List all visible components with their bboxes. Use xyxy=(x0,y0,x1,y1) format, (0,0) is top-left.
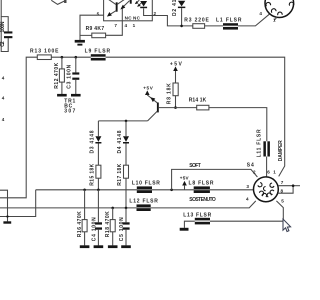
LED light arrow xyxy=(135,0,142,7)
diode D3 xyxy=(95,136,101,142)
wire: collector rail to diodes xyxy=(98,120,147,122)
phototransistor 2 bar xyxy=(130,0,132,4)
resistor R9 xyxy=(92,33,106,38)
wire: C3 top xyxy=(75,57,77,72)
wire: R12 top xyxy=(61,57,63,69)
svg-text:R3 220E: R3 220E xyxy=(184,18,209,24)
capacitor C3 xyxy=(72,72,79,79)
transistor TR1 bar xyxy=(157,103,159,113)
svg-text:7: 7 xyxy=(281,180,284,185)
wire: +5V to soft line xyxy=(184,185,186,190)
wire: R18 top xyxy=(112,208,114,220)
transistor TR1 base wire xyxy=(159,107,176,109)
svg-text:2: 2 xyxy=(253,170,256,175)
resistor R15 xyxy=(96,165,101,178)
svg-text:6: 6 xyxy=(267,170,270,175)
pin 1 stub xyxy=(274,17,277,20)
svg-text:R8 18K: R8 18K xyxy=(166,83,172,104)
svg-text:R14 1K: R14 1K xyxy=(189,97,207,103)
svg-text:1: 1 xyxy=(133,23,136,28)
inductor L1 FLSR xyxy=(223,23,238,29)
svg-text:R16 470K: R16 470K xyxy=(77,211,83,237)
wire: R12 bottom xyxy=(61,82,63,94)
wire: long net L9 to DIN pin 7 xyxy=(106,57,285,176)
phototransistor emitter wire with arrow xyxy=(109,11,116,16)
phototransistor 2 emitter wire with arrow xyxy=(123,1,130,8)
resistor R13 xyxy=(37,55,51,60)
junction node xyxy=(292,184,295,187)
resistor R17 xyxy=(124,165,129,178)
wire: L13 left to ground xyxy=(184,221,194,228)
svg-text:4: 4 xyxy=(125,23,128,28)
ground xyxy=(3,221,11,223)
svg-text:+5V: +5V xyxy=(143,85,154,90)
svg-text:3: 3 xyxy=(246,184,249,189)
pin cup xyxy=(258,183,262,187)
svg-text:R9 4K7: R9 4K7 xyxy=(86,26,105,32)
svg-text:C4 100N: C4 100N xyxy=(91,217,97,241)
wire: R9 to optocoupler pin xyxy=(106,8,123,36)
diode D4 xyxy=(123,136,129,142)
wire: ground stub xyxy=(79,35,81,40)
pin cup xyxy=(270,183,274,187)
wire: D3 to R15 xyxy=(97,144,99,166)
wire: sostenuto line xyxy=(0,201,256,208)
pin cup xyxy=(270,190,274,194)
optocoupler IC box xyxy=(104,0,153,21)
junction node xyxy=(170,189,173,192)
ground xyxy=(108,245,118,248)
svg-text:L1 FLSR: L1 FLSR xyxy=(216,18,242,24)
svg-text:L13 FLSR: L13 FLSR xyxy=(183,212,211,218)
capacitor C2 xyxy=(4,31,12,38)
junction node xyxy=(6,215,8,217)
wire: pin 2 to R3 xyxy=(152,16,193,26)
svg-text:S4: S4 xyxy=(247,162,254,168)
wire: R18 bottom xyxy=(112,232,114,246)
wire: C5 bottom xyxy=(125,230,127,246)
LED D (inside optocoupler) xyxy=(140,1,147,7)
resistor R3 xyxy=(193,24,205,29)
resistor R8 xyxy=(173,83,178,96)
wire: R16 bottom xyxy=(84,232,86,246)
svg-text:D2 414: D2 414 xyxy=(172,0,178,16)
wire xyxy=(1,17,8,52)
svg-text:D3 4148: D3 4148 xyxy=(89,130,95,153)
mouse cursor xyxy=(283,219,291,232)
wire: R15 to soft line xyxy=(97,178,99,190)
wire: R13 to L9 xyxy=(51,56,91,58)
svg-text:L8 FLSR: L8 FLSR xyxy=(189,180,214,186)
svg-text:R18 470K: R18 470K xyxy=(105,211,111,237)
resistor R16 xyxy=(82,220,87,232)
svg-text:5: 5 xyxy=(281,198,284,203)
svg-text:R15 18K: R15 18K xyxy=(89,163,95,185)
wire: left edge to R13 xyxy=(0,57,37,198)
wire: R14 to L11 xyxy=(209,108,267,142)
svg-text:L10 FLSR: L10 FLSR xyxy=(132,180,160,186)
wire: D3 anode xyxy=(97,121,99,136)
junction node xyxy=(75,56,78,59)
svg-text:NC: NC xyxy=(125,16,133,21)
svg-text:4: 4 xyxy=(259,11,262,16)
svg-text:SOSTENUTO: SOSTENUTO xyxy=(189,197,216,203)
wire: C5 top xyxy=(125,208,127,222)
transistor TR1 collector wire xyxy=(148,111,158,121)
wire: +5V to R8 xyxy=(175,71,177,83)
pin cup xyxy=(267,193,271,197)
transistor TR1 emitter wire with arrow xyxy=(147,95,157,103)
wire: pin 7 to pin 8 loop xyxy=(278,186,293,194)
wire: pin 5 to ground rail xyxy=(80,15,104,35)
svg-text:NC: NC xyxy=(133,16,141,21)
capacitor C4 xyxy=(95,222,102,229)
wire: R14 xyxy=(176,107,197,109)
junction node xyxy=(125,207,128,210)
pin cup xyxy=(263,187,265,191)
wire: C4 bottom xyxy=(97,230,99,246)
resistor R12 xyxy=(59,69,64,82)
DIN connector S4 shell xyxy=(254,177,279,202)
pin cup xyxy=(259,191,263,195)
inductor L12 FLSR xyxy=(137,204,151,211)
svg-text:R17 18K: R17 18K xyxy=(117,163,123,185)
resistor R18 xyxy=(110,220,115,232)
partial arrow symbol cut by top edge xyxy=(51,0,66,4)
wire: L1 to DIN S? pin 4 xyxy=(238,14,270,26)
wire: D2 cathode down xyxy=(181,8,183,26)
wire: LED cathode to pin 2 xyxy=(144,8,153,15)
pin cup xyxy=(262,193,266,197)
svg-text:R13 100E: R13 100E xyxy=(30,49,59,55)
svg-text:100N: 100N xyxy=(0,21,6,32)
wire: pin 7 net to right edge xyxy=(293,185,300,187)
inductor L9 FLSR xyxy=(91,54,106,60)
junction node xyxy=(111,207,114,210)
pin cup xyxy=(266,2,271,6)
svg-text:1: 1 xyxy=(273,170,276,175)
capacitor C5 xyxy=(123,222,130,229)
wire: R3 to L1 xyxy=(205,25,223,27)
svg-text:D4 4148: D4 4148 xyxy=(117,130,123,153)
wire: R16 top xyxy=(84,190,86,220)
ground xyxy=(75,40,85,43)
inductor L11 FLSR (vertical) xyxy=(263,141,270,156)
LED light arrow xyxy=(138,3,141,6)
wire: soft line xyxy=(36,189,254,191)
svg-text:C3 100N: C3 100N xyxy=(67,64,73,88)
ground xyxy=(94,245,104,248)
svg-text:1: 1 xyxy=(273,18,276,23)
phototransistor base wire xyxy=(108,0,116,5)
ground xyxy=(57,94,67,97)
wire: L11 to DIN pin 6 xyxy=(266,157,268,178)
inductor L13 FLSR xyxy=(195,218,210,225)
wire: left stub to ground xyxy=(0,190,8,221)
wire: soft branch up xyxy=(172,169,258,189)
svg-text:SOFT: SOFT xyxy=(189,163,201,169)
wire: C4 top xyxy=(97,190,99,223)
svg-text:7: 7 xyxy=(114,23,117,28)
wire: D4 to R17 xyxy=(125,144,127,166)
inductor L10 FLSR xyxy=(137,186,152,193)
wire: R8 to base node xyxy=(175,96,177,108)
ground xyxy=(71,94,81,97)
wire: soft line return to left xyxy=(0,190,36,217)
phototransistor bar xyxy=(116,2,118,11)
resistor R14 xyxy=(197,105,209,110)
svg-text:C5 100N: C5 100N xyxy=(119,217,125,241)
svg-text:+5V: +5V xyxy=(170,62,183,68)
junction node xyxy=(174,106,177,109)
wire xyxy=(1,0,8,31)
svg-text:5: 5 xyxy=(97,12,100,17)
svg-text:307: 307 xyxy=(64,109,75,115)
ground xyxy=(180,228,189,231)
wire: R17 through soft line to sostenuto line xyxy=(125,178,127,208)
ground xyxy=(121,245,131,248)
svg-text:L11 FLSR: L11 FLSR xyxy=(256,129,262,157)
wire: L13 to DIN pin 5 xyxy=(210,201,283,221)
diode D2 xyxy=(178,1,185,7)
svg-text:L12 FLSR: L12 FLSR xyxy=(129,198,158,204)
wire: C3 bottom xyxy=(75,80,77,94)
junction node xyxy=(97,189,100,192)
svg-text:DAMPER: DAMPER xyxy=(278,140,284,161)
inductor L8 FLSR xyxy=(194,186,210,193)
svg-text:C2: C2 xyxy=(0,41,6,47)
junction node xyxy=(83,189,86,192)
junction node xyxy=(61,56,64,59)
junction node xyxy=(180,25,183,28)
pin cup xyxy=(289,2,294,5)
phototransistor collector wire xyxy=(118,0,126,4)
svg-text:R12 470K: R12 470K xyxy=(54,62,60,88)
pin cup xyxy=(271,9,276,13)
wire: D4 anode xyxy=(125,121,127,136)
svg-text:4: 4 xyxy=(246,197,249,202)
pin cup xyxy=(278,12,283,15)
svg-text:L9 FLSR: L9 FLSR xyxy=(85,49,111,55)
junction node xyxy=(125,120,128,123)
DIN connector shell xyxy=(265,0,294,18)
ground xyxy=(80,245,90,248)
